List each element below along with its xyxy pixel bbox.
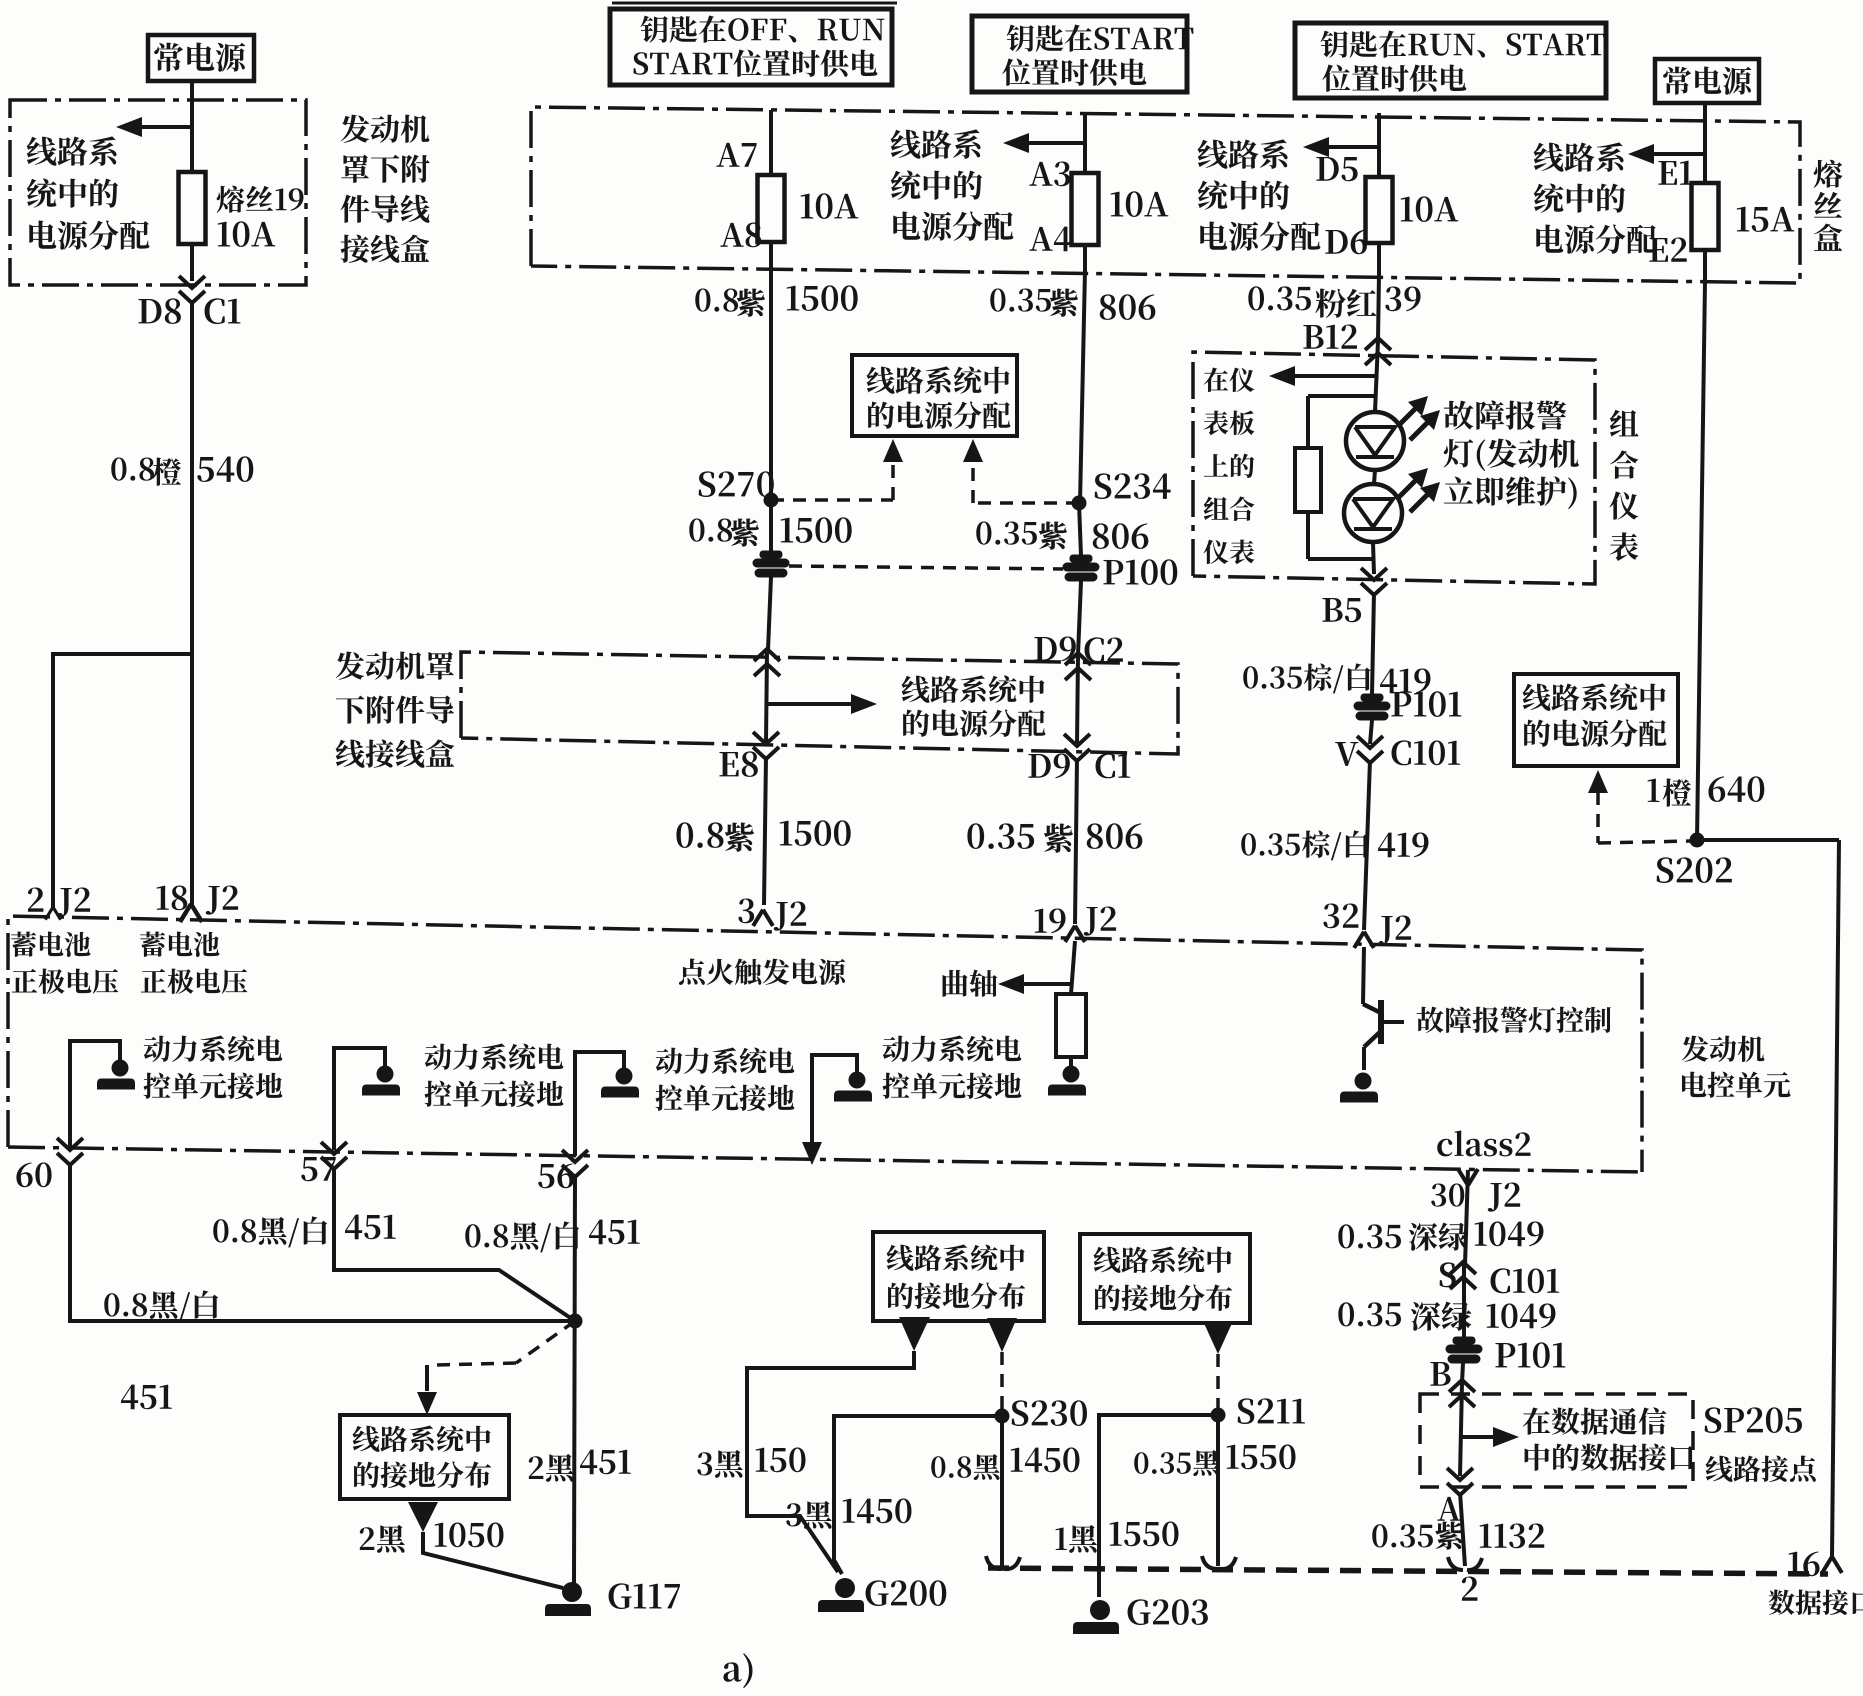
wire col4 B12 to LED1 xyxy=(1375,341,1378,412)
label 0.35深绿 1049 (upper) xyxy=(1338,1221,1543,1250)
wire S230 left to G200 xyxy=(834,1416,1002,1574)
label 0.35深绿 1049 (lower) xyxy=(1338,1302,1555,1331)
box label 钥匙在RUN、START位置时供电 xyxy=(1295,23,1606,98)
connector D9/C1 chevron xyxy=(1028,734,1130,778)
connector P100 (col2) xyxy=(753,551,789,577)
connector B chevron xyxy=(1430,1362,1475,1407)
fuse D5/D6 10A xyxy=(1316,157,1458,254)
connector A chevron xyxy=(1437,1468,1473,1521)
wire col4 fuse to fusebox bottom xyxy=(1377,243,1381,274)
wire col2 fuse to fusebox bottom xyxy=(769,242,773,266)
junction S230 xyxy=(995,1400,1087,1426)
wire pin56 down to G117 xyxy=(574,1174,575,1583)
label 数据接口 xyxy=(1769,1590,1863,1615)
dashed drop to S211 xyxy=(1216,1354,1220,1410)
arrow below ground dist box xyxy=(408,1502,438,1532)
bus foot col S230 xyxy=(986,1556,1020,1569)
dash-dot box underhood fuse block (left) xyxy=(10,100,306,285)
wire right edge down to DLC pin16 xyxy=(1832,840,1839,1558)
fuse E1/E2 15A xyxy=(1649,161,1794,262)
fuse F19 10A xyxy=(179,172,304,247)
label 3黑 150 xyxy=(697,1447,805,1477)
connector P100 (col3) xyxy=(1063,555,1177,585)
label 0.35紫 806 (lower) xyxy=(967,823,1142,852)
label 蓄电池正极电压 (pin18) xyxy=(140,932,247,994)
label class2 xyxy=(1437,1131,1530,1157)
wire col3 into fusebox xyxy=(1083,113,1087,173)
label 0.8黑 1450 xyxy=(931,1447,1079,1480)
dashed tap S270 to power dist box xyxy=(771,439,903,500)
label 发动机罩下附件导线接线盒 (top) xyxy=(341,115,430,263)
label 在仪表板上的组合仪表 xyxy=(1203,368,1254,565)
label 0.8黑/白 451 (pin57) xyxy=(213,1215,395,1248)
dashed drop to S230 xyxy=(1000,1352,1004,1410)
wire col3 fusebox to S234 xyxy=(1080,270,1085,503)
label 蓄电池正极电压 (pin2) xyxy=(11,932,118,994)
wire col1 from 常电源 into box xyxy=(190,81,194,172)
box label 钥匙在OFF、RUN START位置时供电 xyxy=(610,9,892,85)
label SP205 线路接点 xyxy=(1705,1407,1816,1482)
label 线路系统中的电源分配 (col2/3) xyxy=(891,129,1014,240)
arrow to power distribution (col5) xyxy=(1628,144,1705,164)
ground ECU pin56 branch xyxy=(575,1052,639,1156)
LED warning lamp 2 xyxy=(1344,484,1402,542)
arrow to power distribution (col4) xyxy=(1303,137,1379,157)
wire between LEDs xyxy=(1374,470,1375,484)
LED1 emission arrows xyxy=(1398,396,1440,440)
label 2黑 1050 xyxy=(360,1522,504,1552)
label 0.8黑/白 451 (pin60) xyxy=(104,1290,218,1409)
wire col4 into fusebox xyxy=(1377,113,1381,177)
label 动力系统电控单元接地 (4) xyxy=(882,1035,1021,1098)
label 故障报警灯(发动机立即维护) xyxy=(1444,401,1579,510)
dash-dot box underhood junction (mid) xyxy=(461,652,1178,754)
LED2 emission arrows xyxy=(1398,468,1440,512)
wire pin60 to merge xyxy=(70,1164,575,1321)
arrow inside cluster box xyxy=(1269,366,1377,386)
connector S/C101 chevron xyxy=(1440,1262,1560,1293)
wire col3 fuse to fusebox bottom xyxy=(1083,245,1087,270)
label 3黑 1450 xyxy=(786,1498,911,1528)
label 组合仪表 (vertical) xyxy=(1610,410,1639,561)
bus foot col S211 xyxy=(1202,1556,1236,1569)
ground G200 xyxy=(818,1578,946,1612)
junction S270 xyxy=(699,471,778,507)
label 线路系统中的电源分配 (col5) xyxy=(1534,142,1657,253)
box label 常电源 (right) xyxy=(1655,59,1759,103)
LED warning lamp 1 xyxy=(1346,412,1404,470)
dash-dot box 熔丝盒 fuse box xyxy=(531,107,1800,283)
label pin 2 xyxy=(1462,1576,1478,1600)
ground ECU pin57 branch xyxy=(334,1048,400,1150)
wire A chevron to bus xyxy=(1460,1492,1465,1566)
connector P101 (data) xyxy=(1446,1337,1565,1368)
connector V/C101 chevron xyxy=(1335,736,1460,766)
pin 3 J2 xyxy=(738,898,806,930)
label 动力系统电控单元接地 (1) xyxy=(143,1035,282,1098)
arrow to power distribution (col3) xyxy=(1003,133,1085,153)
wire col4 LED2 to box edge xyxy=(1373,542,1374,574)
wire col5 fusebox to S202 xyxy=(1697,281,1705,840)
fuse A7/A8 10A xyxy=(716,143,858,247)
box 线路系统中的电源分配 (mid) xyxy=(852,355,1017,436)
dashed tap S202 to power dist box xyxy=(1588,770,1690,843)
label 1黑 1550 xyxy=(1056,1521,1179,1552)
arrow B below mid box xyxy=(987,1318,1017,1352)
bus foot col A xyxy=(1448,1557,1482,1570)
arrow below right box xyxy=(1203,1321,1233,1354)
wire branch to pin2 xyxy=(53,654,192,907)
dashed link P100 pair xyxy=(789,566,1063,569)
label 故障报警灯控制 xyxy=(1417,1007,1611,1033)
label 0.35棕/白 419 (upper) xyxy=(1243,663,1430,693)
label 发动机罩下附件导线接线盒 (mid) xyxy=(336,652,454,768)
arrow inside SP205 box xyxy=(1461,1407,1694,1470)
wire S202 to right edge xyxy=(1697,838,1839,842)
label 线路系统中的电源分配 (col1) xyxy=(27,136,150,249)
dash-dot box engine ECU 发动机电控单元 xyxy=(8,916,1642,1172)
junction S211 xyxy=(1211,1398,1305,1424)
wire col2 into fusebox xyxy=(769,110,773,175)
wire class2 pin to C101 xyxy=(1465,1170,1468,1265)
wire col2 inside hood box xyxy=(766,652,767,742)
arrow to wiring-system power distribution (col1) xyxy=(116,117,192,137)
resistor cluster shunt xyxy=(1295,396,1376,559)
arrow A below mid box xyxy=(899,1317,930,1351)
wire col3 S234 to P100 xyxy=(1079,503,1081,556)
wire col2 S270 to P100 xyxy=(769,500,773,552)
wire col1 fuse to box edge xyxy=(190,244,194,281)
label 0.35紫 1132 xyxy=(1372,1521,1544,1549)
box label 常电源 (left battery feed) xyxy=(148,35,254,81)
wire col2 fusebox to S270 xyxy=(769,266,773,500)
dashed tap S234 to power dist box xyxy=(963,439,1079,503)
junction S202 xyxy=(1657,833,1732,883)
ground crank resistor xyxy=(1048,1066,1086,1096)
wire col3 P100 to hood box xyxy=(1078,581,1081,655)
label 点火触发电源 xyxy=(679,959,845,985)
wire col3 hood box to ECU pin19 xyxy=(1075,758,1077,924)
wire col3 inside hood box xyxy=(1077,656,1078,744)
label 0.8黑/白 451 (pin56) xyxy=(465,1220,639,1253)
label 0.35紫 806 (below S234) xyxy=(976,521,1148,549)
transistor MIL driver Q1 xyxy=(1363,1000,1404,1070)
label 30 J2 xyxy=(1431,1182,1520,1211)
box 线路系统中的接地分布 (mid) xyxy=(873,1232,1044,1321)
label 0.8紫 1500 (below S270) xyxy=(689,517,851,546)
ground G203 xyxy=(1073,1599,1208,1634)
wire triangle A to G200 xyxy=(747,1351,914,1572)
box label 钥匙在START位置时供电 xyxy=(972,16,1193,92)
label 发动机电控单元 xyxy=(1682,1036,1791,1098)
connector B12 chevron xyxy=(1303,324,1391,365)
wire S211 down to bus xyxy=(1216,1415,1220,1566)
pin 56 xyxy=(538,1150,588,1188)
connector P101 (col4) xyxy=(1354,691,1461,720)
pin 16 on data bus xyxy=(1789,1551,1842,1576)
box 线路系统中的电源分配 (right) xyxy=(1514,674,1678,766)
ground ECU 4th branch xyxy=(812,1055,872,1160)
connector E8 chevron xyxy=(719,732,779,777)
pin class2 chevron xyxy=(1458,1169,1478,1185)
fuse A3/A4 10A xyxy=(1029,161,1168,251)
arrow 4th ground to ECU edge xyxy=(802,1142,822,1165)
wire col1 to pin18 xyxy=(190,654,194,905)
wire P101 to B chevron xyxy=(1462,1363,1463,1383)
dash-dot box instrument cluster xyxy=(1193,352,1595,584)
box 线路系统中的接地分布 (left) xyxy=(340,1415,509,1499)
wire pin19 into ECU xyxy=(1071,941,1075,994)
resistor crank pull-up xyxy=(1056,994,1086,1057)
wire resistor to ground xyxy=(1069,1057,1073,1066)
wire pin57 to merge xyxy=(334,1166,575,1321)
wire col1 down to branch xyxy=(190,300,194,654)
ground ECU pin60 branch xyxy=(70,1041,135,1148)
wire col5 into fusebox xyxy=(1703,103,1707,183)
wire col2 hood box to ECU pin3 xyxy=(764,756,766,905)
ground G117 xyxy=(545,1582,680,1616)
label 0.8紫 1500 (upper) xyxy=(695,285,857,316)
wire pin32 into ECU xyxy=(1363,947,1364,1004)
pin 2 J2 xyxy=(28,887,90,919)
wire col4 B5 to P101 xyxy=(1372,592,1374,695)
label 熔丝盒 (vertical) xyxy=(1814,160,1843,251)
wire col4 P101 to C101 xyxy=(1370,720,1372,744)
label 0.8紫 1500 (lower) xyxy=(676,820,850,851)
wire S211 left and down to G203 xyxy=(1099,1415,1218,1597)
label 0.35棕/白 419 (lower) xyxy=(1241,830,1428,860)
junction chevron col2 into hood box xyxy=(754,649,780,676)
wire col5 fuse to fusebox bottom xyxy=(1703,250,1707,281)
label 0.8橙 540 xyxy=(111,456,253,485)
pin 18 J2 xyxy=(157,885,238,922)
wire to G117 xyxy=(423,1532,563,1588)
dashed data bus xyxy=(988,1568,1828,1574)
wire col4 C101 to ECU pin32 xyxy=(1364,760,1370,930)
pin 57 xyxy=(301,1142,347,1181)
label 0.35黑 1550 xyxy=(1134,1444,1295,1476)
dashed tap merge to ground dist box xyxy=(417,1321,575,1415)
pin 32 J2 xyxy=(1323,903,1411,947)
wire S230 down to bus xyxy=(1000,1416,1004,1566)
junction merge 451 xyxy=(568,1314,582,1328)
pin 60 xyxy=(16,1138,83,1187)
label 0.35紫 806 (upper) xyxy=(990,288,1155,319)
connector D8/C1 double chevron xyxy=(138,276,240,324)
junction S234 xyxy=(1072,473,1171,510)
wire C101 to P101 xyxy=(1462,1265,1466,1338)
dashed box SP205 splice xyxy=(1420,1394,1693,1487)
arrow 曲轴 crank feed xyxy=(943,970,1072,997)
arrow inside hood box to power dist xyxy=(767,675,1045,736)
wire through SP205 box xyxy=(1460,1383,1462,1476)
label 0.35粉红 39 xyxy=(1248,286,1420,317)
label a) xyxy=(723,1653,752,1688)
ground transistor emitter xyxy=(1340,1073,1378,1103)
label 1橙 640 xyxy=(1648,776,1765,806)
wire segment above key-OFF-RUN box xyxy=(612,2,897,5)
label 2黑 451 xyxy=(529,1450,631,1482)
connector B5 chevron xyxy=(1322,568,1387,622)
wire col2 P100 to hood box xyxy=(768,577,771,650)
label 动力系统电控单元接地 (2) xyxy=(424,1043,563,1106)
connector D9/C2 chevron xyxy=(1034,636,1122,680)
label 线路系统中的电源分配 (col4) xyxy=(1198,139,1321,250)
box 线路系统中的接地分布 (right) xyxy=(1080,1234,1250,1323)
pin 19 J2 xyxy=(1035,906,1116,941)
label 动力系统电控单元接地 (3) xyxy=(655,1047,794,1110)
wire col4 fusebox to B12 xyxy=(1378,274,1379,340)
